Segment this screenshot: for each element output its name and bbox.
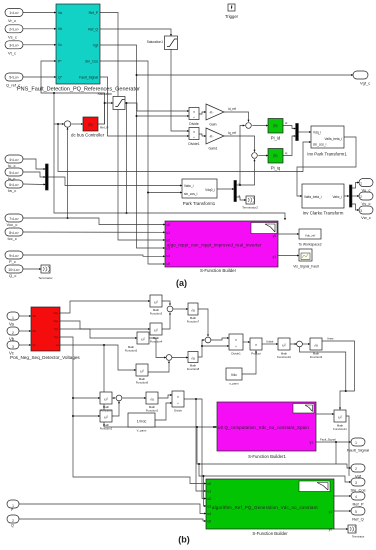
mux2: [296, 124, 299, 141]
math function D: [100, 392, 112, 404]
block Inv Park Transform1: [311, 126, 344, 148]
svg-text:-K-: -K-: [209, 135, 214, 139]
wire dc bus sum to PI: [71, 123, 83, 125]
svg-text:sin_cos_i: sin_cos_i: [184, 192, 198, 196]
s-function icon: [251, 223, 277, 234]
svg-text:3<Lo>: 3<Lo>: [9, 44, 19, 48]
wire demux3 to Vu_c: [352, 183, 359, 189]
wire Vgf branch to Divide input: [137, 115, 190, 117]
svg-text:wt: wt: [56, 343, 59, 347]
output port Vv_c: [359, 192, 373, 200]
svg-text:-K-: -K-: [209, 111, 214, 115]
svg-text:Terminator2: Terminator2: [242, 206, 258, 210]
wire detector out1 to Math Function3: [60, 301, 150, 313]
wire Sin_Cos bus: [199, 464, 351, 482]
wire Product to Math Function10: [262, 343, 278, 345]
junction sqrt4: [201, 345, 203, 347]
svg-text:Function: Function: [101, 408, 112, 412]
svg-text:Vdq_i: Vdq_i: [313, 130, 321, 134]
svg-text:Iv_c: Iv_c: [8, 176, 15, 181]
svg-text:Divide: Divide: [174, 409, 182, 413]
wire Iw_c to mux: [23, 183, 46, 186]
wire sum3 to sqrt9: [302, 343, 310, 345]
terminator Q_c: [41, 265, 50, 273]
svg-text:√u: √u: [314, 343, 318, 347]
subsystem Pos_Neg_Seq_Detector_Voltages: [31, 307, 60, 351]
scope Vis_Signal_Fault: [299, 249, 312, 261]
svg-text:7<Lo>: 7<Lo>: [9, 217, 19, 221]
wire branch down to Vgf bus: [335, 442, 337, 464]
svg-text:PI: PI: [273, 154, 277, 159]
svg-text:Vb: Vb: [58, 27, 62, 31]
svg-text:Trigger: Trigger: [225, 14, 239, 19]
wire Vgf bus: [197, 427, 351, 468]
svg-text:Saturation: Saturation: [97, 92, 112, 96]
svg-text:Divide1: Divide1: [188, 142, 199, 146]
wire Sin_Cos branch to Park Transform1: [148, 192, 182, 194]
junction vgf divide: [136, 115, 138, 117]
svg-text:4: 4: [355, 495, 357, 499]
svg-text:Q*: Q*: [58, 75, 63, 79]
svg-text:Vcc_c: Vcc_c: [7, 222, 18, 227]
junction vgf bus: [196, 426, 198, 428]
svg-text:iq_ref: iq_ref: [228, 131, 236, 135]
math function5: [137, 332, 149, 344]
sqrt blockF: [146, 392, 158, 404]
wire Va to detector: [19, 315, 31, 317]
wire branch to Math Function: [73, 397, 100, 399]
svg-text:Product: Product: [251, 352, 261, 356]
svg-text:Fault_Signal: Fault_Signal: [347, 448, 369, 453]
svg-text:Vs_c: Vs_c: [8, 34, 17, 39]
svg-text:y1: y1: [310, 441, 314, 445]
svg-text:3: 3: [360, 209, 362, 213]
svg-text:sin_cos_i: sin_cos_i: [313, 142, 327, 146]
svg-text:Ref_Q: Ref_Q: [352, 517, 364, 522]
sqrt block2: [188, 303, 198, 315]
sum2: [252, 153, 258, 159]
svg-text:y0: y0: [329, 528, 333, 532]
junction on P* line: [53, 92, 55, 94]
junction u3 drop: [203, 475, 205, 477]
junction d feedback: [239, 184, 241, 186]
wire Vs_c to Vb: [23, 28, 56, 30]
svg-text:5: 5: [355, 510, 357, 514]
divide block Divide1: [189, 128, 199, 140]
input port Q: [7, 515, 19, 523]
wire Park Vdq0 to demux: [217, 188, 234, 190]
wire Vcc feedback up into sum: [67, 128, 69, 218]
svg-text:Function3: Function3: [150, 311, 163, 315]
svg-text:Gain: Gain: [209, 123, 216, 127]
wire Iv_c to mux: [23, 172, 46, 177]
svg-text:u5: u5: [167, 262, 171, 266]
svg-text:u4: u4: [208, 512, 212, 516]
svg-text:Pos_Neg_Seq_Detector_Voltages: Pos_Neg_Seq_Detector_Voltages: [10, 355, 80, 360]
product block: [250, 338, 262, 350]
input port Iu_c: [5, 155, 23, 163]
wire Vgf branch down to magenta u3: [137, 75, 166, 248]
wire sumb1 to sqrt2: [173, 308, 188, 310]
PI_id block: [268, 119, 283, 134]
PI_iq block: [268, 149, 283, 164]
magenta texts: [167, 223, 277, 266]
svg-text:1: 1: [12, 504, 14, 508]
wire Divide output to green u1: [184, 399, 206, 491]
svg-text:y1: y1: [273, 255, 277, 259]
input port P: [7, 500, 19, 508]
junction sat branch: [126, 102, 128, 104]
wire Q_c to Terminator: [23, 268, 41, 270]
svg-text:To Workspace2: To Workspace2: [298, 242, 321, 246]
svg-text:Iu_c: Iu_c: [8, 163, 16, 168]
svg-text:Park Transform1: Park Transform1: [183, 201, 216, 206]
svg-text:u2: u2: [208, 497, 212, 501]
svg-text:Ref_P: Ref_P: [352, 502, 363, 507]
s-function icon green: [299, 481, 330, 492]
svg-text:Valfa_beta_i: Valfa_beta_i: [325, 137, 343, 141]
svg-text:Vb: Vb: [33, 329, 37, 333]
wire Vneg parallel drop: [300, 347, 346, 391]
wire sum2 to PI_iq: [258, 155, 268, 157]
svg-text:Va: Va: [9, 322, 14, 327]
svg-text:Icc_c: Icc_c: [8, 236, 17, 241]
demux3: [350, 185, 352, 207]
svg-text:S-Function Builder1: S-Function Builder1: [248, 454, 286, 459]
wire gain1 to sum2 iq_ref: [224, 136, 255, 152]
wire bus to magenta u0: [104, 345, 217, 427]
constant 1/Vdc: [128, 413, 155, 427]
svg-text:5<Lo>: 5<Lo>: [9, 171, 19, 175]
output port Vgf_c: [353, 71, 368, 79]
wire Math Function1 to sum4: [112, 401, 119, 416]
wire Sin_Cos down to magenta u5: [100, 61, 165, 264]
svg-text:Gain1: Gain1: [208, 147, 217, 151]
svg-text:Vr_c: Vr_c: [8, 18, 16, 23]
svg-text:1: 1: [360, 182, 362, 186]
svg-text:Function11: Function11: [333, 427, 347, 431]
wire sat branch down to y213 bus: [126, 103, 128, 213]
wire Fault_Signal to Divide input: [100, 77, 189, 136]
to workspace Vdc_ref: [299, 229, 321, 239]
wire green to Ref_P: [334, 495, 351, 497]
output port Vu_c: [359, 179, 373, 187]
wire MathFunction10 to sum3: [290, 343, 297, 345]
math function11: [334, 410, 346, 422]
wire magenta y0 to workspace: [278, 233, 299, 235]
wire MathFunction6 to sumb2: [148, 361, 169, 372]
junction vneg: [345, 390, 347, 392]
gain Gain1: [206, 128, 224, 144]
svg-text:1/Vdc: 1/Vdc: [137, 419, 147, 423]
sum dc bus: [64, 121, 70, 127]
junction loop: [72, 415, 74, 417]
output port Vgf: [351, 464, 365, 472]
svg-text:Fault_Signal: Fault_Signal: [320, 438, 336, 442]
svg-text:iq: iq: [285, 151, 288, 155]
wire green to terminator3: [334, 528, 348, 530]
wire Iu_c to mux: [23, 159, 46, 169]
wire magenta y1 to scope: [278, 255, 299, 257]
wire sqrt9 Vrete to Math Function11: [322, 341, 355, 410]
svg-text:Function2: Function2: [146, 408, 159, 412]
output port Fault_Signal: [351, 438, 365, 446]
svg-text:3: 3: [12, 345, 14, 349]
wire demux3 to Vv_c: [352, 195, 359, 197]
svg-text:Vt_c: Vt_c: [8, 50, 16, 55]
junction Vgf: [136, 74, 138, 76]
wire sqrt2 to sumb3 top: [198, 309, 208, 336]
svg-text:u4: u4: [167, 254, 171, 258]
wire sqrtF to Divide: [158, 395, 172, 398]
input port Va: [7, 312, 19, 320]
svg-text:2: 2: [360, 195, 362, 199]
svg-text:Vw_c: Vw_c: [361, 215, 371, 220]
svg-text:Vd-: Vd-: [54, 327, 58, 331]
s-function green algorithm_Ref_PQ: [206, 479, 334, 529]
math function1: [100, 410, 112, 422]
wire demux d feedback: [237, 159, 255, 185]
wire bus y213 to magenta top: [54, 124, 285, 220]
svg-text:Ref_P: Ref_P: [89, 11, 99, 15]
svg-text:Unbal: Unbal: [266, 340, 274, 344]
svg-text:Function1: Function1: [100, 426, 113, 430]
wire constant to Product second input: [242, 351, 256, 374]
svg-text:Vd+: Vd+: [53, 311, 58, 315]
wire demux3 to Vw_c: [352, 204, 359, 210]
svg-text:Function10: Function10: [277, 355, 291, 359]
math function10: [278, 338, 290, 350]
svg-text:Vgf: Vgf: [355, 474, 362, 479]
svg-text:u0 Q_computation_Vdc_no_consta: u0 Q_computation_Vdc_no_constant_Spain: [218, 425, 309, 430]
svg-text:u1: u1: [208, 490, 212, 494]
saturation block Saturation1: [165, 36, 178, 50]
svg-text:PI_id: PI_id: [271, 136, 281, 141]
svg-text:Vabc_i: Vabc_i: [332, 195, 342, 199]
wire sumb3 to Divide1: [211, 338, 229, 340]
svg-text:Vgf: Vgf: [93, 43, 98, 47]
wire detector out2 to Math Function4: [60, 321, 150, 329]
s-function icon magenta2: [293, 404, 314, 414]
wire green to Ref_Q: [334, 510, 351, 512]
demux Vdq0: [234, 181, 236, 202]
junction fault branch: [335, 441, 337, 443]
sum1: [246, 123, 252, 129]
svg-text:Vq+: Vq+: [53, 319, 58, 323]
wire loop around to green u0: [73, 416, 206, 484]
wire Math Function11 to Sin_Cos bus: [346, 416, 349, 476]
svg-text:Va: Va: [58, 11, 62, 15]
output port Vw_c: [359, 206, 373, 214]
svg-text:2: 2: [12, 331, 14, 335]
sum b2: [166, 355, 172, 361]
svg-text:Terminator: Terminator: [352, 535, 364, 539]
svg-text:s_pann: s_pann: [229, 382, 239, 386]
wire demux q to Terminator2: [237, 197, 247, 200]
svg-text:PNS_Fault_Detection_PQ_Referen: PNS_Fault_Detection_PQ_References_Genera…: [17, 87, 140, 93]
terminator Terminator2: [246, 196, 255, 204]
svg-text:Sin_Cos: Sin_Cos: [85, 59, 98, 63]
wire demux d to sum1: [240, 126, 245, 186]
wire sum1 to PI_id: [252, 125, 268, 127]
svg-text:Vdq0_i: Vdq0_i: [205, 188, 215, 192]
wire Divide1 to Gain1: [199, 134, 206, 136]
junction Vcc feedback: [67, 217, 69, 219]
svg-text:6<Lo>: 6<Lo>: [9, 183, 19, 187]
svg-text:2: 2: [12, 519, 14, 523]
svg-text:Valfa_beta_i: Valfa_beta_i: [304, 195, 322, 199]
math function4: [150, 323, 162, 335]
svg-text:u1: u1: [167, 231, 171, 235]
wire Ref_Q to Saturation1: [100, 29, 171, 36]
junction out4: [72, 397, 74, 399]
wire Icc_c to magenta u1: [23, 231, 165, 233]
wire branch to Divide1 second input: [202, 345, 229, 347]
svg-text:1: 1: [355, 441, 357, 445]
junction saturation input tee: [104, 102, 106, 104]
svg-text:Sin_Cos: Sin_Cos: [350, 488, 365, 493]
svg-text:id: id: [285, 121, 288, 125]
wire detector out4 to Math Function1: [60, 337, 100, 416]
svg-text:algorithm_Ref_PQ_Generation_Vd: algorithm_Ref_PQ_Generation_Vdc_no_const…: [212, 505, 318, 510]
green texts: [208, 482, 333, 531]
svg-text:(b): (b): [178, 535, 190, 545]
sum b3: [205, 337, 211, 343]
wire PI_iq to mux2: [283, 136, 296, 156]
wire P to green u4: [19, 504, 206, 514]
wire sin_cos bus down and across: [58, 124, 311, 172]
s-function magenta Q_computation: [217, 402, 316, 451]
output port Ref_P: [351, 492, 365, 500]
junction bus u0: [103, 344, 105, 346]
svg-text:Vdc: Vdc: [231, 373, 237, 377]
svg-text:Divide1: Divide1: [231, 352, 241, 356]
s-function block algo_mppt magenta: [165, 221, 278, 267]
wire MathFunction3 to sumb1: [162, 301, 170, 305]
wire Vdc_ref into dc bus sum: [54, 93, 64, 124]
wire Saturation1 down to Divide1 input: [171, 50, 189, 132]
wire MathFunction4 to sumb1: [162, 313, 170, 329]
saturation block Saturation: [113, 97, 125, 110]
input port P_c: [5, 251, 23, 259]
svg-text:Q_c: Q_c: [9, 273, 16, 278]
svg-text:Saturation1: Saturation1: [147, 40, 164, 44]
input port Vc: [7, 341, 19, 349]
wire Clarke to demux3: [344, 195, 349, 197]
svg-text:Vgf_c: Vgf_c: [360, 81, 370, 86]
svg-text:Inv Park Transform1: Inv Park Transform1: [307, 152, 347, 157]
block Park Transform1: [182, 179, 217, 198]
svg-text:y0: y0: [273, 234, 277, 238]
svg-text:Function7: Function7: [187, 319, 200, 323]
svg-text:Vq-: Vq-: [54, 335, 58, 339]
output port Sin_Cos: [351, 478, 365, 486]
wire Q_ref_c to Q*: [23, 76, 56, 78]
svg-text:Ref_P: Ref_P: [100, 126, 108, 130]
math function3: [150, 295, 162, 307]
svg-text:S-Function Builder: S-Function Builder: [252, 531, 288, 536]
wire branch to green u2: [196, 399, 206, 499]
svg-text:9<Lo>: 9<Lo>: [9, 254, 19, 258]
svg-text:Vb: Vb: [9, 337, 15, 342]
svg-text:Terminator: Terminator: [38, 276, 52, 280]
constant s_pann: [226, 368, 242, 380]
svg-text:1<Lo>: 1<Lo>: [9, 11, 19, 15]
svg-text:Vrete: Vrete: [327, 337, 334, 341]
gain Gain: [206, 104, 224, 120]
svg-text:Function5: Function5: [125, 348, 138, 352]
svg-text:u0: u0: [167, 223, 171, 227]
wire Q to green u5: [19, 519, 206, 521]
subsystem PNS_Fault_Detection_PQ_References_Generator: [56, 4, 100, 84]
input port Vr_c: [5, 9, 23, 17]
svg-text:u0: u0: [208, 482, 212, 486]
wire P* feedback from dc bus saturation: [41, 61, 105, 124]
svg-text:Vis_Signal_Fault: Vis_Signal_Fault: [293, 264, 318, 268]
svg-text:8<Lo>: 8<Lo>: [9, 231, 19, 235]
input port Vb: [7, 327, 19, 335]
wire gain to sum1 id_ref: [224, 112, 249, 122]
mux currents: [46, 164, 49, 190]
svg-text:Q: Q: [11, 523, 14, 527]
svg-text:Vabc_i: Vabc_i: [184, 184, 194, 188]
svg-text:Vu_c: Vu_c: [362, 188, 371, 193]
svg-text:2: 2: [355, 467, 357, 471]
svg-text:5<Lo>: 5<Lo>: [9, 76, 19, 80]
wire PI_id to mux2: [283, 126, 296, 129]
dc bus Controller PI block: [83, 117, 98, 131]
svg-text:y1: y1: [329, 510, 333, 514]
svg-text:Function6: Function6: [136, 380, 149, 384]
input port Vs_c: [5, 25, 23, 33]
input port Q_ref_c: [5, 73, 23, 81]
svg-text:√u: √u: [191, 308, 195, 312]
svg-text:3: 3: [355, 481, 357, 485]
wire Vgf to Vgf_c output oval: [100, 45, 353, 75]
wire sumb2 to sqrt4: [172, 357, 188, 359]
svg-text:Function8: Function8: [187, 367, 200, 371]
wire Vcc_c to magenta u0: [23, 218, 165, 225]
svg-text:4<Lo>: 4<Lo>: [9, 158, 19, 162]
sum b1: [167, 306, 173, 312]
wire dc bus PI output to Saturation: [98, 103, 113, 124]
svg-text:Divide: Divide: [189, 122, 199, 126]
svg-text:dc bus Controller: dc bus Controller: [71, 133, 105, 138]
svg-text:S-Function Builder: S-Function Builder: [200, 268, 237, 273]
wire sqrt4 to sumb3 bottom: [198, 340, 204, 357]
output port Ref_Q: [351, 507, 365, 515]
wire Vt_c to Vc: [23, 44, 56, 46]
wire detector out3 to Math Function5: [60, 329, 137, 338]
junction sincos bus: [198, 463, 200, 465]
junction magenta u0: [213, 426, 215, 428]
wire Vc to detector: [19, 344, 31, 346]
svg-text:P_c: P_c: [9, 259, 16, 264]
wire Ref_P down to magenta u2: [100, 13, 165, 241]
svg-text:algo_mppt_non_mppt_improved_re: algo_mppt_non_mppt_improved_real_inverte…: [167, 243, 262, 248]
block Inv Clarke Transform: [302, 184, 344, 208]
svg-text:√u: √u: [191, 357, 195, 361]
wire green u3 drop: [204, 476, 207, 506]
wire MathFunction5 to sumb2: [149, 338, 166, 358]
svg-text:PI: PI: [88, 123, 92, 128]
wire mux to Park Transform1 Vabc: [48, 177, 182, 186]
input port Vcc_c: [5, 214, 23, 222]
wire Vr_c to Va: [23, 12, 56, 14]
svg-text:Vv_c: Vv_c: [362, 201, 371, 206]
svg-text:10<Lo>: 10<Lo>: [8, 268, 20, 272]
wire 1/Vdc to Divide: [155, 403, 172, 420]
